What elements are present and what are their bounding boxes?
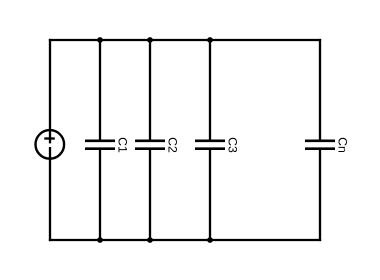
node bottom C1 [97, 237, 103, 243]
node bottom C2 [147, 237, 153, 243]
label C2 [166, 137, 180, 153]
wire top rail [49, 39, 321, 41]
node top C2 [147, 37, 153, 43]
label C1 [116, 137, 130, 153]
voltage source V1 [36, 130, 65, 159]
wire left lower (source negative lead) [49, 147, 51, 241]
node top C1 [97, 37, 103, 43]
svg-text:C3: C3 [226, 137, 240, 153]
wire bottom rail [49, 239, 321, 241]
node top C3 [207, 37, 213, 43]
svg-text:Cn: Cn [336, 137, 350, 153]
capacitor C3 [195, 39, 225, 241]
label Cn [336, 137, 350, 153]
label C3 [226, 137, 240, 153]
svg-text:C1: C1 [116, 137, 130, 153]
svg-text:C2: C2 [166, 137, 180, 153]
node bottom C3 [207, 237, 213, 243]
capacitor C1 [85, 39, 115, 241]
capacitor C2 [135, 39, 165, 241]
wire left upper (source positive lead) [49, 39, 51, 144]
capacitor Cn [305, 39, 335, 241]
